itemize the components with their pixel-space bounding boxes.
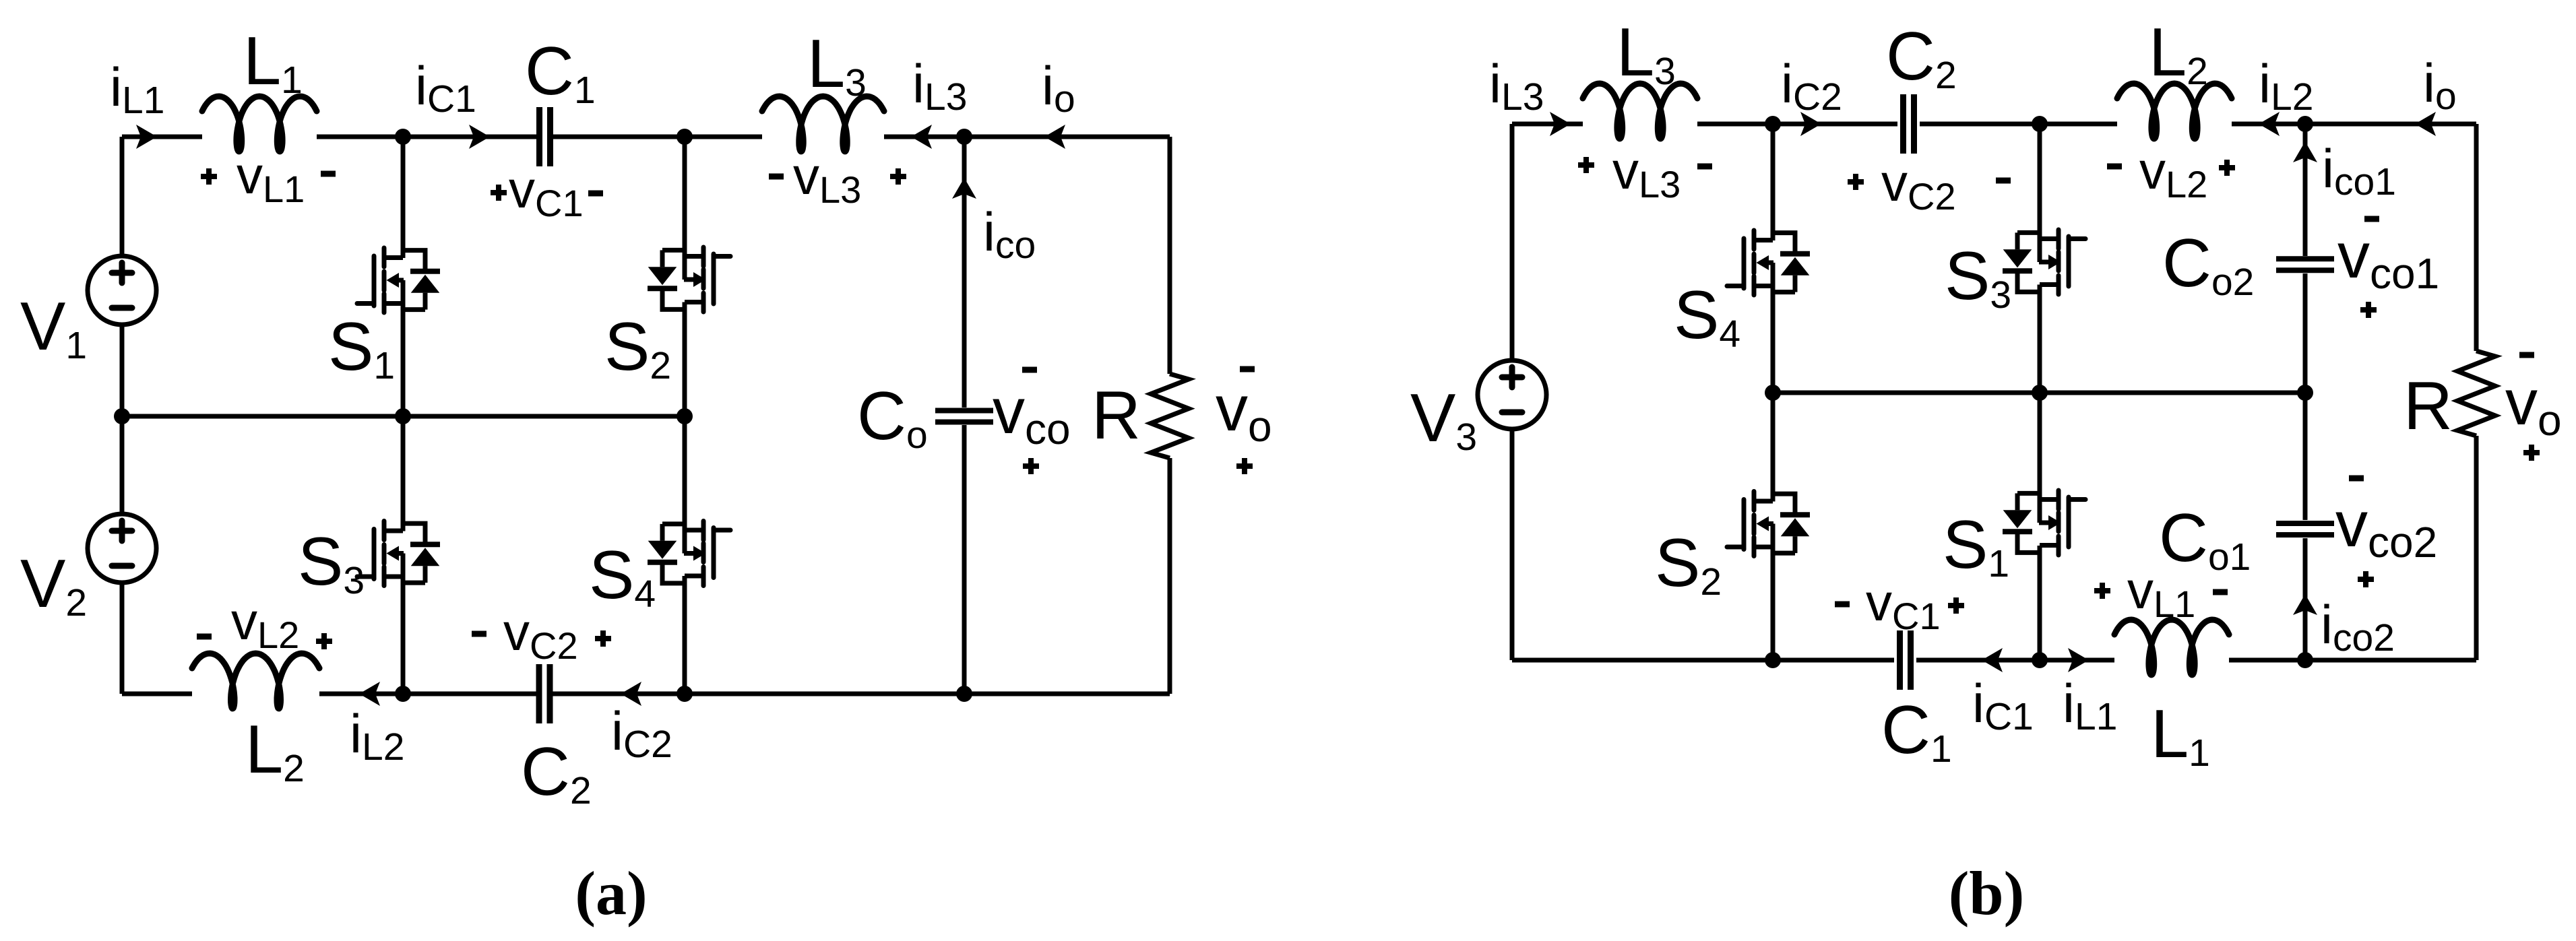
node: (a) bottom at S3: [395, 686, 411, 702]
node: (a) top at Co: [956, 129, 972, 145]
node: (b) mid at S3/S1: [2032, 385, 2048, 401]
label R (a): [1092, 378, 1141, 453]
svg-text:S3: S3: [298, 524, 365, 602]
label - of vco: [1022, 367, 1037, 373]
label L2 (b): [2149, 15, 2208, 93]
node: (b) bottom at S1: [2032, 652, 2048, 668]
svg-text:Co2: Co2: [2162, 226, 2254, 304]
svg-text:iL2: iL2: [350, 704, 404, 769]
svg-text:iL1: iL1: [2063, 674, 2117, 738]
label - of vL2 (b): [2107, 164, 2122, 170]
label ico2: [2321, 595, 2395, 659]
transistor S1: [357, 248, 440, 313]
capacitor C1 (b): [1900, 630, 1911, 690]
wire: (b) bottom rail C1 to L1: [1916, 658, 2114, 663]
svg-text:Co1: Co1: [2159, 500, 2251, 579]
transistor S4: [648, 521, 730, 586]
svg-text:vco: vco: [993, 375, 1071, 453]
voltage source V1: [88, 256, 156, 325]
node: (a) top at S2: [677, 129, 693, 145]
label V2: [20, 546, 87, 624]
label S2 (b): [1655, 525, 1722, 604]
svg-text:S4: S4: [1674, 278, 1740, 356]
node: (b) top at S3: [2032, 116, 2048, 132]
svg-text:(a): (a): [575, 859, 647, 928]
capacitor C2: [539, 664, 550, 723]
transistor S3 (b): [2003, 230, 2085, 294]
wire: (b) left rail upper: [1510, 124, 1515, 360]
node: (a) mid at S2/S4: [677, 408, 693, 424]
svg-text:iL1: iL1: [110, 57, 164, 122]
svg-text:C2: C2: [1886, 19, 1957, 97]
label + of vco2: [2358, 571, 2374, 587]
node: (b) mid at Co: [2297, 385, 2313, 401]
svg-text:vC2: vC2: [503, 602, 578, 667]
svg-text:Co: Co: [857, 379, 928, 457]
wire: Co upper column: [962, 137, 967, 408]
capacitor C2 (b): [1904, 94, 1914, 154]
wire: S2 upper column: [683, 137, 687, 280]
label iL2 (b): [2259, 54, 2313, 119]
arrow io (b): [2415, 112, 2436, 136]
arrow iC1: [469, 125, 490, 149]
svg-text:iL2: iL2: [2259, 54, 2313, 119]
svg-text:vo: vo: [1216, 372, 1272, 451]
wire: S4 source column (b): [1771, 263, 1776, 393]
label S3 (b): [1945, 238, 2011, 317]
svg-text:V2: V2: [20, 546, 87, 624]
label - of vC2 (b): [1996, 178, 2011, 184]
label - of vL3 (a): [769, 174, 784, 180]
svg-text:vC1: vC1: [1866, 573, 1941, 637]
label - of vC2 (a): [472, 631, 486, 637]
wire: (a) left rail upper: [120, 137, 125, 256]
wire: (a) top rail left segment: [122, 135, 202, 139]
arrow iC1 (b): [1982, 648, 2003, 672]
svg-text:iC2: iC2: [1781, 54, 1842, 119]
wire: S4 drain column (b): [1771, 124, 1776, 240]
label ico: [983, 202, 1036, 267]
svg-text:iC1: iC1: [1972, 674, 2034, 738]
label S1: [328, 309, 395, 387]
node: (b) top at S4: [1765, 116, 1781, 132]
label L1: [243, 24, 303, 102]
arrow ico1: [2293, 141, 2317, 162]
label vco1: [2337, 220, 2439, 298]
label - of vL1 (b): [2213, 589, 2228, 595]
label + of vco: [1023, 458, 1039, 474]
label - of vo (a): [1240, 366, 1255, 372]
label io (b): [2423, 53, 2457, 118]
label vL1: [237, 145, 305, 210]
node: (b) bottom at Co1: [2297, 652, 2313, 668]
label vC2 (a): [503, 602, 578, 667]
wire: Co1 lower column: [2303, 538, 2308, 660]
transistor S2 (b): [1727, 492, 1810, 556]
label iC1 (b): [1972, 674, 2034, 738]
node: (a) top at S1: [395, 129, 411, 145]
svg-text:vL1: vL1: [237, 145, 305, 210]
node: (b) top at Co2: [2297, 116, 2313, 132]
transistor S2: [648, 247, 730, 312]
svg-text:C2: C2: [521, 734, 592, 812]
inductor L3 (b): [1583, 84, 1697, 139]
wire: (b) top rail C2 to L2: [1920, 122, 2117, 127]
svg-text:ico: ico: [983, 202, 1036, 267]
arrow iL1: [136, 125, 157, 149]
arrow iL3 (b): [1550, 112, 1571, 136]
label vL1 (b): [2127, 560, 2195, 625]
svg-text:L1: L1: [2151, 696, 2210, 775]
label + of vo (b): [2523, 445, 2540, 461]
label C2 (b): [1886, 19, 1957, 97]
wire: (a) bottom rail left segment: [122, 692, 192, 696]
label vC1 (b): [1866, 573, 1941, 637]
capacitor C1: [540, 107, 551, 166]
wire: S1 source column: [401, 280, 406, 416]
label iL1 (b): [2063, 674, 2117, 738]
label S4: [589, 538, 656, 616]
label + of vC2 (a): [595, 630, 611, 647]
wire: (a) left rail lower: [120, 583, 125, 694]
label vC2 (b): [1881, 153, 1956, 218]
inductor L1: [202, 96, 317, 152]
wire: Co1 upper column: [2303, 393, 2308, 520]
label - of vco1: [2364, 216, 2379, 222]
label - of vL3 (b): [1697, 164, 1712, 170]
label ico1: [2322, 139, 2396, 203]
wire: S2 source column (b): [1771, 524, 1776, 661]
arrow iL2: [359, 682, 380, 706]
svg-text:V3: V3: [1410, 381, 1477, 459]
capacitor Co1: [2276, 523, 2334, 535]
svg-text:C1: C1: [1881, 692, 1952, 771]
label L3 (a): [807, 26, 867, 104]
label - of vL2 (a): [197, 634, 212, 640]
label iL2 (a): [350, 704, 404, 769]
arrow ico2: [2293, 594, 2317, 615]
wire: S2 drain column (b): [1771, 393, 1776, 502]
arrow io (a): [1044, 125, 1065, 149]
svg-text:vo: vo: [2505, 366, 2562, 445]
inductor L1 (b): [2114, 620, 2229, 675]
resistor R (a): [1151, 374, 1189, 458]
wire: (b) bottom rail L1 to right corner: [2229, 658, 2476, 663]
arrow iC2: [621, 682, 641, 706]
wire: (a) bottom rail L2 to C2: [319, 692, 536, 696]
svg-text:io: io: [1042, 56, 1075, 121]
label vL2 (a): [231, 591, 299, 656]
wire: (a) bottom rail C2 to right corner: [553, 692, 1170, 696]
label S1 (b): [1943, 507, 2009, 585]
label vco2: [2335, 488, 2437, 566]
svg-text:vC1: vC1: [509, 160, 584, 224]
label io (a): [1042, 56, 1075, 121]
label + of vC2 (b): [1848, 174, 1864, 190]
svg-text:L1: L1: [243, 24, 303, 102]
wire: S4 lower column: [683, 576, 687, 694]
transistor S1 (b): [2003, 490, 2085, 555]
wire: S3 upper column (b): [2038, 124, 2042, 262]
label - of vco2: [2349, 476, 2364, 482]
node: (a) mid at S columns: [395, 408, 411, 424]
svg-text:iC2: iC2: [611, 701, 672, 766]
label iL3 (b): [1489, 54, 1544, 119]
svg-text:S1: S1: [1943, 507, 2009, 585]
svg-text:S2: S2: [1655, 525, 1722, 604]
wire: S3 source column: [401, 554, 406, 694]
label S4 (b): [1674, 278, 1740, 356]
svg-text:S2: S2: [604, 309, 671, 387]
node: (a) bottom at S4: [677, 686, 693, 702]
transistor S4 (b): [1727, 230, 1810, 295]
wire: S3 drain column: [401, 416, 406, 531]
label Co: [857, 379, 928, 457]
label - of vC1: [588, 191, 603, 197]
node: (a) mid at left rail: [114, 408, 130, 424]
caption (a): [575, 859, 647, 928]
wire: S1 drain column: [401, 137, 406, 258]
arrow iL1 (b): [2068, 648, 2089, 672]
label - of vo (b): [2519, 352, 2534, 358]
svg-text:io: io: [2423, 53, 2457, 118]
label vL2 (b): [2139, 141, 2207, 205]
wire: (b) middle rail: [1773, 391, 2305, 395]
svg-text:ico1: ico1: [2322, 139, 2396, 203]
wire: Co2 upper column: [2303, 124, 2308, 256]
label + of vL1: [201, 168, 217, 185]
label vo (b): [2505, 366, 2562, 445]
label + of vL2 (a): [316, 633, 332, 649]
inductor L3 (a): [762, 96, 884, 152]
label vL3 (b): [1612, 141, 1680, 205]
label L2 (a): [245, 712, 305, 790]
svg-text:iL3: iL3: [912, 54, 967, 119]
arrow ico: [952, 178, 976, 199]
label + of vL1 (b): [2094, 583, 2110, 599]
label - of vL1: [321, 171, 336, 177]
svg-text:V1: V1: [20, 289, 87, 367]
label + of vco1: [2360, 302, 2377, 318]
wire: (b) left rail lower: [1510, 429, 1515, 660]
label L1 (b): [2151, 696, 2210, 775]
arrow iL3: [911, 125, 932, 149]
voltage source V2: [88, 514, 156, 583]
svg-text:S1: S1: [328, 309, 395, 387]
arrow iL2 (b): [2259, 112, 2280, 136]
capacitor Co2: [2276, 259, 2334, 270]
svg-text:vL2: vL2: [231, 591, 299, 656]
label C1 (b): [1881, 692, 1952, 771]
label S2: [604, 309, 671, 387]
label C1: [525, 34, 596, 112]
node: (a) bottom at Co: [956, 686, 972, 702]
wire: (a) left rail between V1 and V2: [120, 325, 125, 514]
svg-text:R: R: [2404, 368, 2453, 444]
label iL3 (a): [912, 54, 967, 119]
wire: Co lower column: [962, 425, 967, 694]
svg-text:vC2: vC2: [1881, 153, 1956, 218]
label - of vC1 (b): [1835, 602, 1850, 608]
wire: S4 upper column: [683, 416, 687, 554]
svg-text:iC1: iC1: [415, 56, 476, 121]
label iC2 (a): [611, 701, 672, 766]
svg-text:R: R: [1092, 378, 1141, 453]
label Co2 label: [2162, 226, 2254, 304]
svg-text:L3: L3: [1616, 15, 1676, 93]
wire: S1 lower column (b): [2038, 546, 2042, 660]
label vo (a): [1216, 372, 1272, 451]
node: (b) mid at S4/S2: [1765, 385, 1781, 401]
label V3: [1410, 381, 1477, 459]
svg-text:S3: S3: [1945, 238, 2011, 317]
svg-text:vL3: vL3: [793, 146, 861, 211]
node: (b) bottom at S2: [1765, 652, 1781, 668]
svg-text:L2: L2: [245, 712, 305, 790]
wire: (b) top rail L3 to C2: [1697, 122, 1897, 127]
svg-text:L3: L3: [807, 26, 867, 104]
svg-text:iL3: iL3: [1489, 54, 1544, 119]
label + of vC1: [491, 185, 507, 201]
label iC2 (b): [1781, 54, 1842, 119]
capacitor Co: [935, 411, 993, 422]
wire: (a) top rail L3 to right corner: [884, 135, 1170, 139]
svg-text:(b): (b): [1949, 859, 2024, 928]
wire: Co2 lower column: [2303, 273, 2308, 393]
caption (b): [1949, 859, 2024, 928]
wire: S1 upper column (b): [2038, 393, 2042, 523]
svg-text:C1: C1: [525, 34, 596, 112]
inductor L2: [192, 653, 319, 709]
wire: (a) top rail C1 to L3: [553, 135, 762, 139]
svg-text:vco1: vco1: [2337, 220, 2439, 298]
svg-text:ico2: ico2: [2321, 595, 2395, 659]
label + of vo (a): [1236, 458, 1253, 474]
wire: (a) right rail lower: [1168, 458, 1172, 694]
wire: (b) top rail left segment: [1512, 122, 1583, 127]
label V1: [20, 289, 87, 367]
label + of vL2 (b): [2219, 160, 2235, 176]
transistor S3: [357, 521, 440, 586]
arrow iC2 (b): [1800, 112, 1821, 136]
label vco: [993, 375, 1071, 453]
svg-text:S4: S4: [589, 538, 656, 616]
label S3: [298, 524, 365, 602]
wire: (b) right rail lower: [2474, 436, 2479, 660]
wire: S2 lower column: [683, 302, 687, 417]
svg-text:vL2: vL2: [2139, 141, 2207, 205]
label L3 (b): [1616, 15, 1676, 93]
svg-text:vco2: vco2: [2335, 488, 2437, 566]
label vL3 (a): [793, 146, 861, 211]
label iL1: [110, 57, 164, 122]
voltage source V3: [1478, 360, 1546, 429]
svg-text:vL3: vL3: [1612, 141, 1680, 205]
label + of vL3 (b): [1578, 157, 1594, 173]
label Co1 label: [2159, 500, 2251, 579]
wire: S3 lower column (b): [2038, 285, 2042, 393]
wire: (b) top rail L2 to right corner: [2232, 122, 2476, 127]
wire: (b) right rail upper: [2474, 124, 2479, 351]
wire: (a) top rail L1 to C1: [317, 135, 536, 139]
resistor R (b): [2457, 351, 2495, 436]
inductor L2 (b): [2117, 84, 2232, 139]
label R (b): [2404, 368, 2453, 444]
label vC1: [509, 160, 584, 224]
label + of vL3 (a): [890, 168, 906, 185]
label + of vC1 (b): [1948, 597, 1964, 614]
svg-text:L2: L2: [2149, 15, 2208, 93]
wire: (a) right rail upper: [1168, 137, 1172, 374]
wire: (b) bottom rail left segment: [1512, 658, 1894, 663]
label iC1: [415, 56, 476, 121]
label C2 (a): [521, 734, 592, 812]
wire: (a) middle rail: [122, 414, 685, 419]
